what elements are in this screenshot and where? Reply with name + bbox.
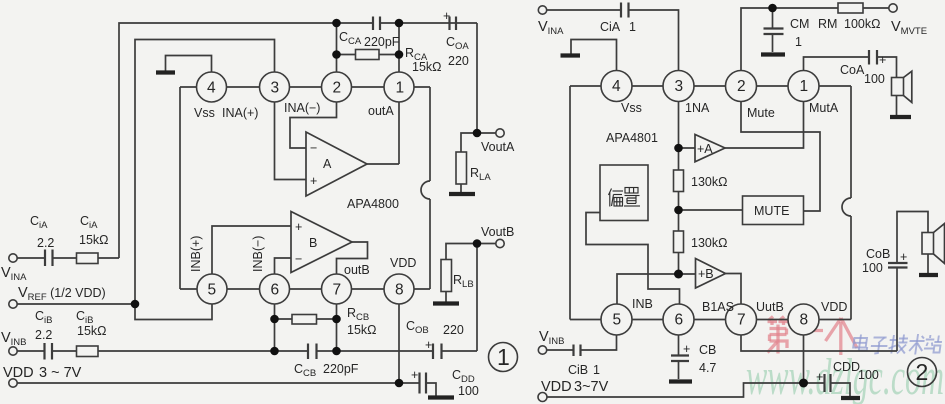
svg-text:220: 220 xyxy=(448,54,469,68)
svg-text:VoutB: VoutB xyxy=(481,225,514,239)
svg-text:220: 220 xyxy=(443,323,464,337)
svg-text:+: + xyxy=(411,368,418,382)
svg-text:INA(−): INA(−) xyxy=(284,101,320,115)
svg-text:VDD: VDD xyxy=(541,379,572,395)
svg-text:100: 100 xyxy=(862,261,883,275)
svg-text:RM: RM xyxy=(818,17,837,31)
svg-text:130kΩ: 130kΩ xyxy=(691,175,727,189)
svg-text:220pF: 220pF xyxy=(323,362,359,376)
svg-text:APA4800: APA4800 xyxy=(347,197,399,211)
svg-text:VDD: VDD xyxy=(390,256,416,270)
svg-text:4.7: 4.7 xyxy=(699,361,716,375)
svg-text:+B: +B xyxy=(698,267,714,281)
svg-text:CM: CM xyxy=(790,17,809,31)
svg-text:+: + xyxy=(879,53,886,67)
svg-text:+: + xyxy=(310,174,317,188)
svg-text:CB: CB xyxy=(699,343,716,357)
svg-text:15kΩ: 15kΩ xyxy=(347,323,377,337)
svg-text:INB(−): INB(−) xyxy=(251,236,265,272)
svg-text:15kΩ: 15kΩ xyxy=(412,60,442,74)
svg-text:INB(+): INB(+) xyxy=(189,236,203,272)
svg-text:15kΩ: 15kΩ xyxy=(79,233,109,247)
svg-text:5: 5 xyxy=(613,312,622,329)
svg-text:4: 4 xyxy=(612,78,621,95)
svg-text:4: 4 xyxy=(207,80,216,97)
svg-text:MutA: MutA xyxy=(809,101,839,115)
svg-text:8: 8 xyxy=(800,312,809,329)
svg-text:3: 3 xyxy=(675,78,684,95)
svg-text:15kΩ: 15kΩ xyxy=(77,324,107,338)
svg-text:Vss: Vss xyxy=(194,106,215,120)
svg-text:+A: +A xyxy=(697,142,713,156)
svg-text:−: − xyxy=(295,252,302,266)
svg-text:100: 100 xyxy=(458,384,479,398)
svg-text:CDD: CDD xyxy=(833,360,860,374)
svg-text:outA: outA xyxy=(368,104,394,118)
svg-text:+: + xyxy=(425,338,432,352)
svg-text:3~7V: 3~7V xyxy=(574,379,609,395)
svg-text:1: 1 xyxy=(795,35,802,49)
svg-text:CoA: CoA xyxy=(840,63,865,77)
svg-text:INA(+): INA(+) xyxy=(222,106,258,120)
svg-text:1: 1 xyxy=(497,344,510,370)
svg-text:+: + xyxy=(900,250,907,264)
svg-text:2: 2 xyxy=(916,359,929,385)
svg-text:2.2: 2.2 xyxy=(35,328,52,342)
svg-text:7: 7 xyxy=(333,282,342,299)
svg-text:1: 1 xyxy=(629,20,636,34)
svg-text:2.2: 2.2 xyxy=(37,236,54,250)
svg-text:1: 1 xyxy=(593,363,600,377)
svg-text:CiB: CiB xyxy=(568,363,588,377)
svg-text:5: 5 xyxy=(208,282,217,299)
svg-text:VDD: VDD xyxy=(821,300,847,314)
svg-text:APA4801: APA4801 xyxy=(606,131,658,145)
svg-text:130kΩ: 130kΩ xyxy=(691,236,727,250)
svg-text:3 ~ 7V: 3 ~ 7V xyxy=(39,365,82,381)
svg-text:B: B xyxy=(309,236,317,250)
svg-text:Vss: Vss xyxy=(621,101,642,115)
svg-text:MUTE: MUTE xyxy=(754,204,789,218)
svg-text:www.dzlgc.com: www.dzlgc.com xyxy=(746,349,944,404)
svg-text:VoutA: VoutA xyxy=(481,140,515,154)
svg-text:1NA: 1NA xyxy=(685,101,710,115)
svg-text:1: 1 xyxy=(800,78,809,95)
svg-text:6: 6 xyxy=(675,312,684,329)
svg-text:+: + xyxy=(816,370,823,384)
svg-text:UutB: UutB xyxy=(756,300,784,314)
svg-text:100: 100 xyxy=(864,72,885,86)
svg-text:Mute: Mute xyxy=(747,106,775,120)
svg-text:INB: INB xyxy=(632,297,653,311)
svg-text:CiA: CiA xyxy=(600,20,621,34)
svg-text:B1AS: B1AS xyxy=(702,300,734,314)
svg-text:3: 3 xyxy=(271,80,280,97)
svg-text:A: A xyxy=(323,157,332,171)
svg-text:220pF: 220pF xyxy=(364,35,400,49)
svg-text:100: 100 xyxy=(858,368,879,382)
svg-text:7: 7 xyxy=(737,312,746,329)
svg-text:−: − xyxy=(310,141,317,155)
svg-text:8: 8 xyxy=(395,282,404,299)
svg-text:1: 1 xyxy=(396,80,405,97)
svg-text:100kΩ: 100kΩ xyxy=(844,17,880,31)
svg-text:outB: outB xyxy=(344,263,370,277)
svg-text:VDD: VDD xyxy=(3,365,34,381)
svg-text:+: + xyxy=(443,9,450,23)
svg-text:2: 2 xyxy=(737,78,746,95)
svg-text:2: 2 xyxy=(333,80,342,97)
svg-text:+: + xyxy=(295,220,302,234)
svg-text:CoB: CoB xyxy=(866,247,890,261)
svg-text:6: 6 xyxy=(271,282,280,299)
svg-text:+: + xyxy=(683,342,690,356)
